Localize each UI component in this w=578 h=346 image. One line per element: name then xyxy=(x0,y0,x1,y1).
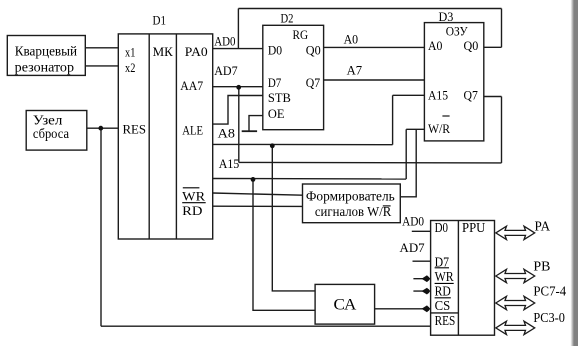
overline R in former text xyxy=(383,205,391,207)
address selector CA box xyxy=(315,284,375,324)
quartz resonator box xyxy=(7,36,85,76)
junction dot AD7 xyxy=(236,85,241,90)
reset node box xyxy=(26,111,87,151)
wire top loop horizontal xyxy=(238,8,501,10)
wire reset to D1 RES xyxy=(87,127,119,129)
wire former output xyxy=(400,129,416,197)
svg-text:PC7-4: PC7-4 xyxy=(533,285,566,300)
wire OE to ground xyxy=(249,116,263,131)
svg-text:OE: OE xyxy=(268,106,285,121)
wire branch to CA input 1 xyxy=(272,146,315,291)
svg-text:D2: D2 xyxy=(281,10,294,25)
wire W/R vertical xyxy=(405,129,407,179)
wire A0 D2 to D3 xyxy=(324,46,425,48)
svg-text:RD: RD xyxy=(182,203,202,218)
svg-text:x1: x1 xyxy=(125,44,135,59)
svg-text:AD0: AD0 xyxy=(214,34,235,49)
svg-text:D0: D0 xyxy=(435,220,449,235)
wire into D3 A15 pin xyxy=(393,94,425,96)
wire CA to PPU CS xyxy=(375,308,431,310)
window edge grey stripe xyxy=(571,0,578,346)
svg-text:D1: D1 xyxy=(153,12,167,27)
svg-text:RD: RD xyxy=(435,283,451,298)
underline D7 PPU xyxy=(435,267,449,269)
svg-text:сигналов W/R: сигналов W/R xyxy=(315,204,391,219)
underline WR PPU xyxy=(435,282,454,284)
junction dot W/R line xyxy=(251,177,256,182)
svg-text:Q0: Q0 xyxy=(464,38,479,53)
svg-text:x2: x2 xyxy=(125,60,135,75)
wire Q0 stub xyxy=(484,46,502,48)
PPU inner column line xyxy=(457,221,459,336)
wire W/R line from D1 xyxy=(213,178,407,181)
PPU box xyxy=(431,221,495,336)
svg-text:A0: A0 xyxy=(344,31,359,46)
wire top loop left vertical xyxy=(237,9,239,49)
svg-text:СА: СА xyxy=(334,297,357,314)
svg-text:PPU: PPU xyxy=(462,220,485,235)
wire AD0 D1 to D2 xyxy=(213,48,263,50)
wire RD to former xyxy=(213,205,303,207)
wire branch to CA input 2 xyxy=(253,179,315,310)
svg-text:D7: D7 xyxy=(268,75,282,90)
svg-text:Q7: Q7 xyxy=(306,75,321,90)
wire stub to PPU RD xyxy=(413,290,430,292)
port arrow PB xyxy=(496,269,535,282)
svg-text:AD7: AD7 xyxy=(214,63,238,78)
svg-text:D0: D0 xyxy=(268,43,282,58)
wire RES bottom run to PPU xyxy=(101,325,431,327)
wire AD7 D1 to D2 xyxy=(213,86,263,88)
svg-text:PA0: PA0 xyxy=(185,44,208,59)
svg-text:AA7: AA7 xyxy=(180,78,203,93)
svg-text:RES: RES xyxy=(435,313,456,328)
microcontroller D1 box xyxy=(118,34,212,239)
svg-text:Кварцевый: Кварцевый xyxy=(15,43,77,58)
RAM D3 box xyxy=(424,23,483,141)
svg-text:RG: RG xyxy=(293,27,309,42)
W/R signal former box xyxy=(303,184,401,223)
wire WR to former xyxy=(213,193,303,195)
svg-text:A8: A8 xyxy=(218,126,235,141)
junction dot reset line xyxy=(98,126,103,131)
svg-text:D7: D7 xyxy=(435,254,450,269)
wire top loop right vertical to Q0 xyxy=(501,9,503,48)
svg-text:резонатор: резонатор xyxy=(15,59,75,74)
wire RES vertical down xyxy=(100,128,102,326)
svg-text:AD7: AD7 xyxy=(400,240,426,255)
junction dot A8 line xyxy=(270,143,275,148)
svg-text:A0: A0 xyxy=(428,38,442,53)
svg-text:Q0: Q0 xyxy=(306,43,321,58)
svg-text:ALE: ALE xyxy=(182,123,203,138)
svg-text:STB: STB xyxy=(268,90,291,105)
svg-text:A7: A7 xyxy=(347,62,363,77)
underline RD PPU xyxy=(435,297,451,299)
D1 inner column line 2 xyxy=(175,34,177,239)
wire x1 quartz to D1 xyxy=(85,47,118,49)
ground bar xyxy=(242,130,257,132)
overline WR D1 xyxy=(183,187,200,189)
svg-text:ОЗУ: ОЗУ xyxy=(446,24,469,39)
svg-text:PA: PA xyxy=(535,220,551,235)
wire into D3 W/R pin xyxy=(406,128,424,130)
arrow blob PPU RD xyxy=(422,288,431,295)
svg-text:RES: RES xyxy=(123,122,147,137)
wire A8 line xyxy=(213,143,393,145)
wire Q7 vertical xyxy=(501,97,503,163)
wire Q7 stub xyxy=(484,96,502,98)
wire A8 vertical to A15 pin xyxy=(392,95,394,144)
svg-text:Формирователь: Формирователь xyxy=(306,189,395,204)
svg-text:A15: A15 xyxy=(219,156,240,171)
wire A7 D2 to D3 xyxy=(324,79,425,81)
register D2 box xyxy=(263,25,324,129)
svg-text:AD0: AD0 xyxy=(402,214,424,229)
D1 inner column line 1 xyxy=(148,34,150,239)
wire AD7 stub to PPU D7 xyxy=(413,260,431,262)
svg-text:A15: A15 xyxy=(428,87,448,102)
svg-text:WR: WR xyxy=(435,269,455,284)
svg-text:WR: WR xyxy=(182,188,205,203)
svg-text:сброса: сброса xyxy=(33,126,69,141)
svg-text:W/R: W/R xyxy=(428,121,450,136)
arrow blob PPU WR xyxy=(422,275,431,282)
svg-text:PC3-0: PC3-0 xyxy=(533,311,565,326)
overline R in D3 W/R xyxy=(442,115,449,117)
arrow blob PPU CS xyxy=(422,305,431,312)
svg-text:МК: МК xyxy=(153,44,174,59)
port arrow PC7-4 xyxy=(496,296,535,309)
wire stub to PPU WR xyxy=(413,278,430,280)
wire x2 quartz to D1 xyxy=(85,65,118,67)
svg-text:D3: D3 xyxy=(439,9,454,24)
port arrow PC3-0 xyxy=(496,321,535,334)
wire AD0 stub to PPU D0 xyxy=(412,230,431,232)
port arrow PA xyxy=(496,226,535,239)
svg-text:PB: PB xyxy=(533,260,550,275)
overline RD D1 xyxy=(182,202,206,204)
wire data line AD7-Q7 xyxy=(239,161,502,164)
wire ALE to STB xyxy=(213,96,263,125)
svg-text:Q7: Q7 xyxy=(464,87,479,102)
svg-text:CS: CS xyxy=(435,298,451,313)
PPU divider above RES xyxy=(431,312,459,314)
wire AD7 branch vertical xyxy=(238,87,240,163)
